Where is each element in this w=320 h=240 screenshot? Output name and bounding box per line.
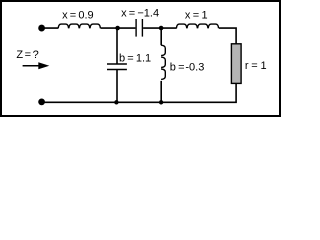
svg-text:x = 1: x = 1 — [185, 10, 208, 22]
svg-text:b = 1.1: b = 1.1 — [119, 52, 151, 64]
svg-text:r = 1: r = 1 — [245, 60, 267, 72]
svg-text:Z = ?: Z = ? — [16, 49, 38, 61]
svg-text:x = −1.4: x = −1.4 — [121, 7, 159, 19]
svg-text:b =: b = — [170, 61, 185, 73]
svg-text:x = 0.9: x = 0.9 — [62, 10, 94, 22]
svg-text:-0.3: -0.3 — [185, 61, 204, 73]
